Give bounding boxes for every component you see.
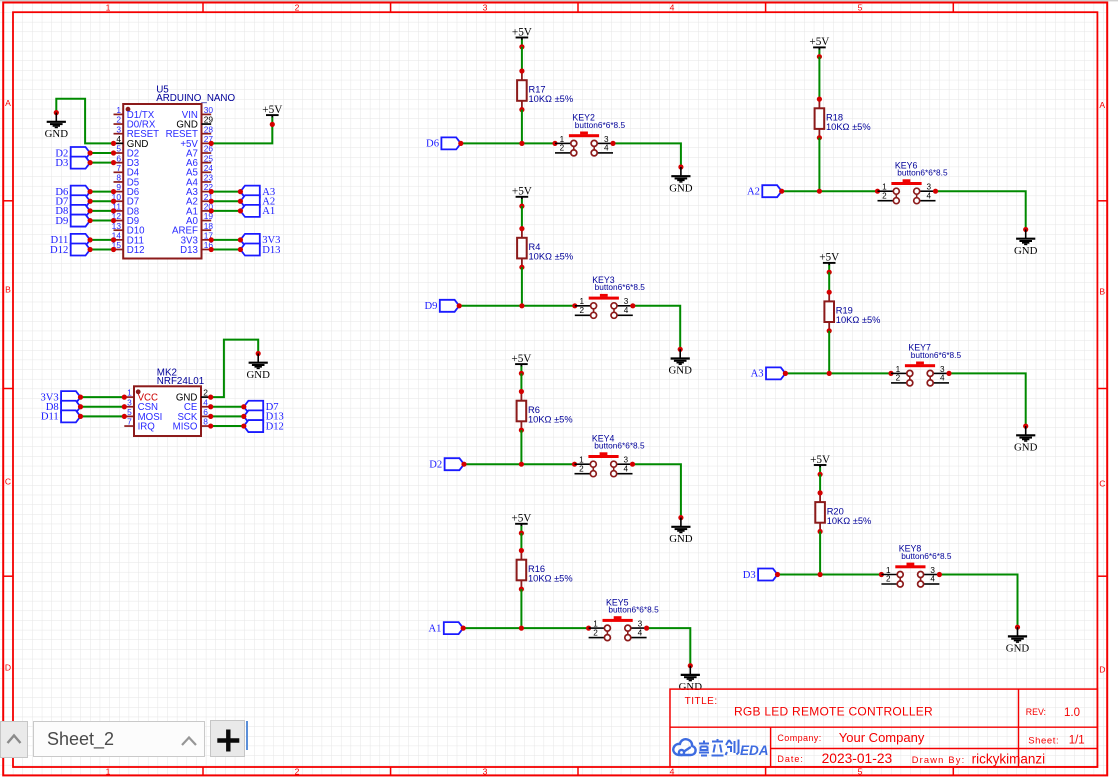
resistor R17: [517, 68, 573, 112]
svg-text:D6: D6: [426, 139, 439, 150]
U5 pin 13 D10: [112, 221, 146, 237]
wire R4 to node D9: [521, 267, 523, 306]
ground KEY2: [669, 164, 693, 194]
svg-text:1: 1: [579, 456, 584, 465]
IC U5 ARDUINO_NANO: [112, 84, 236, 258]
wire +5V to R4: [521, 206, 523, 229]
svg-text:2: 2: [593, 628, 598, 637]
ground near U5: [45, 110, 69, 140]
svg-text:GND: GND: [679, 681, 703, 693]
wire D9 to U5 pin 12: [88, 218, 117, 223]
MK2 pin 6 SCK: [177, 407, 210, 423]
svg-text:+5V: +5V: [809, 36, 829, 48]
svg-text:R6: R6: [528, 405, 540, 415]
svg-text:R19: R19: [836, 306, 853, 316]
svg-text:3: 3: [624, 456, 629, 465]
svg-text:1: 1: [106, 767, 111, 777]
svg-text:+5V: +5V: [810, 454, 830, 466]
U5 pin 16 D13: [180, 240, 213, 256]
svg-text:D2: D2: [429, 460, 442, 471]
svg-text:3: 3: [638, 620, 643, 629]
wire D12 to U5 pin 15: [88, 247, 117, 252]
wire R19 to node A3: [828, 331, 830, 374]
net label D11 (MK2 left): [41, 410, 81, 422]
wire A3 net to KEY7 pin 1: [783, 371, 894, 376]
svg-text:6: 6: [116, 153, 121, 163]
svg-text:+5V: +5V: [511, 353, 531, 365]
svg-text:R18: R18: [826, 113, 843, 123]
net label A3 (U5 right): [240, 186, 275, 198]
svg-text:1: 1: [106, 2, 111, 12]
svg-text:5: 5: [116, 144, 121, 154]
svg-text:ARDUINO_NANO: ARDUINO_NANO: [156, 93, 235, 104]
junction node D3/R20: [818, 572, 823, 577]
wire KEY3 pin 3 to ground: [630, 303, 680, 349]
svg-text:3: 3: [930, 566, 935, 575]
svg-text:GND: GND: [246, 369, 270, 381]
svg-text:C: C: [1099, 479, 1105, 489]
wire D2 net to KEY4 pin 1: [461, 462, 577, 467]
svg-text:4: 4: [116, 134, 121, 144]
svg-text:D9: D9: [55, 216, 68, 227]
power flag +5V KEY3 pull-up: [512, 186, 532, 209]
svg-text:A1: A1: [262, 206, 275, 217]
U5 pin 12 D9: [112, 211, 140, 227]
svg-text:29: 29: [204, 115, 214, 125]
net label D9 (U5 left): [55, 215, 90, 227]
svg-text:+5V: +5V: [819, 252, 839, 264]
svg-text:D: D: [1099, 665, 1105, 675]
push button KEY2 (button6*6*8.5): [555, 113, 625, 156]
junction node D2/R6: [519, 462, 524, 467]
svg-text:MISO: MISO: [173, 421, 198, 432]
net label A1 (KEY5): [428, 622, 463, 634]
svg-text:4: 4: [624, 306, 629, 315]
svg-text:2: 2: [579, 306, 584, 315]
wire R16 to node A1: [520, 589, 522, 628]
svg-text:2: 2: [295, 2, 300, 12]
svg-text:10KΩ ±5%: 10KΩ ±5%: [827, 516, 872, 526]
svg-text:+5V: +5V: [512, 186, 532, 198]
svg-text:2: 2: [882, 191, 887, 200]
power flag +5V near U5: [262, 104, 282, 127]
svg-text:B: B: [5, 285, 11, 295]
ground KEY5: [679, 663, 703, 693]
svg-text:button6*6*8.5: button6*6*8.5: [911, 350, 962, 360]
svg-text:10KΩ ±5%: 10KΩ ±5%: [528, 573, 573, 583]
svg-text:1.0: 1.0: [1064, 707, 1080, 719]
net label D2 (KEY4): [429, 458, 464, 470]
wire D8 to MK2: [78, 404, 127, 409]
svg-text:1: 1: [579, 297, 584, 306]
push button KEY8 (button6*6*8.5): [881, 544, 951, 587]
svg-text:GND: GND: [669, 182, 693, 194]
ground KEY3: [668, 347, 692, 377]
svg-text:2: 2: [116, 115, 121, 125]
svg-text:D: D: [5, 663, 11, 673]
U5 pin 7 D4: [114, 163, 140, 179]
svg-text:A2: A2: [747, 187, 760, 198]
push button KEY5 (button6*6*8.5): [589, 597, 659, 640]
svg-text:RGB LED REMOTE CONTROLLER: RGB LED REMOTE CONTROLLER: [734, 705, 933, 719]
U5 pin 2 D0/RX: [114, 115, 156, 131]
net label A3 (KEY7): [751, 367, 786, 379]
net label A1 (U5 right): [240, 205, 275, 217]
U5 pin 10 D7: [112, 192, 140, 208]
svg-text:D3: D3: [743, 570, 756, 581]
wire A3 to U5 pin 22: [209, 189, 243, 194]
wire U5 pin4 GND to ground: [56, 99, 116, 146]
U5 pin 14 D11: [112, 230, 144, 246]
net label D3 (KEY8): [743, 569, 778, 581]
svg-text:10KΩ ±5%: 10KΩ ±5%: [826, 122, 871, 132]
svg-text:3: 3: [483, 2, 488, 12]
resistor R4: [517, 226, 573, 270]
MK2 pin 2 GND: [176, 388, 211, 404]
wire +5V to R6: [520, 373, 522, 391]
junction node A1/R16: [519, 626, 524, 631]
svg-text:2: 2: [579, 464, 584, 473]
svg-text:Drawn By:: Drawn By:: [912, 755, 966, 765]
U5 pin 29 GND: [176, 115, 213, 131]
U5 pin 30 VIN: [182, 105, 214, 121]
svg-text:3: 3: [116, 124, 121, 134]
svg-text:D9: D9: [424, 301, 437, 312]
UI caret: [246, 721, 249, 750]
U5 pin 26 A7: [186, 144, 213, 160]
svg-text:D11: D11: [41, 412, 59, 423]
wire D13 to MK2: [208, 414, 246, 419]
U5 pin 18 AREF: [172, 221, 213, 237]
svg-text:Your Company: Your Company: [839, 730, 925, 745]
svg-text:GND: GND: [669, 533, 693, 545]
wire A2 to U5 pin 21: [209, 199, 243, 204]
U5 pin 15 D12: [112, 240, 145, 256]
U5 pin 9 D6: [114, 182, 140, 198]
svg-text:2: 2: [295, 767, 300, 777]
ground KEY6: [1014, 227, 1038, 257]
net label 3V3 (MK2 left): [40, 391, 80, 403]
svg-text:IRQ: IRQ: [138, 421, 156, 432]
svg-text:button6*6*8.5: button6*6*8.5: [595, 282, 646, 292]
resistor R19: [824, 290, 880, 334]
wire +5V to R18: [818, 57, 820, 99]
svg-text:button6*6*8.5: button6*6*8.5: [575, 120, 626, 130]
svg-text:Date:: Date:: [777, 754, 804, 764]
MK2 pin 5 MOSI: [124, 407, 162, 423]
ground KEY7: [1014, 424, 1038, 454]
svg-text:10KΩ ±5%: 10KΩ ±5%: [529, 94, 574, 104]
svg-text:R17: R17: [529, 84, 546, 94]
U5 pin 27 +5V: [180, 134, 213, 150]
svg-text:3: 3: [940, 365, 945, 374]
MK2 pin 1 VCC: [124, 388, 158, 404]
wire KEY2 pin 3 to ground: [610, 141, 681, 167]
svg-text:1: 1: [896, 365, 901, 374]
svg-text:D13: D13: [262, 245, 280, 256]
svg-text:GND: GND: [1006, 643, 1030, 655]
power flag +5V KEY8 pull-up: [810, 454, 830, 477]
net label D3 (U5 left): [55, 157, 90, 169]
svg-text:3: 3: [927, 183, 932, 192]
MK2 pin 4 CE: [184, 397, 211, 413]
svg-text:4: 4: [930, 575, 935, 584]
MK2 pin 7 IRQ: [124, 417, 155, 433]
U5 pin 4 GND: [114, 134, 149, 150]
svg-text:2023-01-23: 2023-01-23: [822, 751, 893, 766]
net label A2 (KEY6): [747, 185, 782, 197]
svg-text:1: 1: [560, 135, 565, 144]
svg-text:8: 8: [203, 417, 208, 427]
svg-text:3: 3: [127, 397, 132, 407]
svg-text:GND: GND: [668, 365, 692, 377]
svg-text:rickykimanzi: rickykimanzi: [972, 751, 1046, 766]
net label D11 (U5 left): [50, 234, 90, 246]
wire 3V3 to U5 pin 17: [209, 237, 243, 242]
net label D6 (U5 left): [55, 186, 90, 198]
net label 3V3 (U5 right): [240, 234, 280, 246]
svg-text:4: 4: [624, 464, 629, 473]
ground KEY8: [1006, 625, 1030, 655]
svg-text:4: 4: [203, 397, 208, 407]
wire D8 to U5 pin 11: [88, 208, 117, 213]
U5 pin 5 D2: [114, 144, 140, 160]
svg-text:4: 4: [940, 374, 945, 383]
U5 pin 8 D5: [114, 173, 140, 189]
power flag +5V KEY5 pull-up: [511, 513, 531, 536]
wire A1 net to KEY5 pin 1: [461, 626, 592, 631]
svg-text:9: 9: [116, 182, 121, 192]
svg-text:R16: R16: [528, 564, 545, 574]
svg-text:10KΩ ±5%: 10KΩ ±5%: [529, 252, 574, 262]
svg-text:button6*6*8.5: button6*6*8.5: [594, 441, 645, 451]
svg-text:A1: A1: [428, 623, 441, 634]
svg-text:18: 18: [204, 221, 214, 231]
svg-text:1: 1: [882, 183, 887, 192]
wire D3 net to KEY8 pin 1: [775, 572, 884, 577]
svg-text:23: 23: [204, 173, 214, 183]
U5 pin 1 D1/TX: [114, 105, 155, 121]
wire +5V to R19: [828, 272, 830, 292]
net label D12 (U5 left): [50, 244, 90, 256]
svg-text:7: 7: [127, 417, 132, 427]
svg-text:4: 4: [604, 144, 609, 153]
wire KEY7 pin 3 to ground: [946, 371, 1025, 426]
wire R6 to node D2: [520, 430, 522, 464]
svg-text:28: 28: [204, 124, 214, 134]
svg-text:B: B: [1099, 287, 1105, 297]
UI add sheet button: [210, 720, 245, 757]
net label D12 (MK2 right): [244, 420, 284, 432]
U5 pin 19 A0: [186, 211, 213, 227]
svg-text:2: 2: [560, 144, 565, 153]
svg-text:R4: R4: [529, 242, 541, 252]
svg-text:TITLE:: TITLE:: [685, 696, 718, 707]
svg-text:button6*6*8.5: button6*6*8.5: [608, 605, 659, 615]
wire KEY6 pin 3 to ground: [933, 189, 1026, 230]
net label D2 (U5 left): [55, 147, 90, 159]
U5 pin 23 A4: [186, 173, 213, 189]
svg-text:8: 8: [116, 173, 121, 183]
svg-text:+5V: +5V: [511, 513, 531, 525]
wire D7 to U5 pin 10: [88, 199, 117, 204]
svg-text:1: 1: [886, 566, 891, 575]
svg-text:A: A: [1099, 100, 1105, 110]
svg-text:Company:: Company:: [777, 733, 821, 743]
svg-text:2: 2: [886, 575, 891, 584]
wire D2 to U5 pin 5: [88, 150, 117, 155]
svg-text:GND: GND: [45, 128, 69, 140]
wire MK2 pin2 GND to ground: [208, 340, 258, 400]
U5 pin 24 A5: [186, 163, 213, 179]
net label A2 (U5 right): [240, 195, 275, 207]
svg-text:1: 1: [127, 388, 132, 398]
svg-text:NRF24L01: NRF24L01: [157, 376, 204, 387]
net label D13 (U5 right): [240, 244, 280, 256]
wire +5V to R20: [819, 474, 821, 493]
junction node D6/R17: [519, 141, 524, 146]
svg-text:D12: D12: [50, 245, 68, 256]
wire D13 to U5 pin 16: [209, 247, 243, 252]
U5 pin 21 A2: [186, 192, 213, 208]
svg-text:25: 25: [204, 153, 214, 163]
svg-text:7: 7: [116, 163, 121, 173]
svg-text:Sheet:: Sheet:: [1028, 736, 1059, 747]
svg-text:EDA: EDA: [740, 743, 769, 758]
svg-text:6: 6: [203, 407, 208, 417]
wire D9 net to KEY3 pin 1: [457, 303, 578, 308]
power flag +5V KEY4 pull-up: [511, 353, 531, 376]
U5 pin 20 A1: [186, 202, 213, 218]
wire KEY8 pin 3 to ground: [937, 572, 1018, 627]
wire R18 to node A2: [818, 138, 820, 192]
wire D6 to U5 pin 9: [88, 189, 117, 194]
power flag +5V KEY2 pull-up: [512, 26, 532, 49]
svg-text:4: 4: [927, 191, 932, 200]
U5 pin 22 A3: [186, 182, 213, 198]
svg-text:A3: A3: [751, 369, 764, 380]
resistor R18: [815, 97, 871, 141]
wire A2 net to KEY6 pin 1: [779, 189, 880, 194]
svg-text:R20: R20: [827, 506, 844, 516]
wire D7 to MK2: [208, 404, 246, 409]
wire R20 to node D3: [819, 532, 821, 575]
resistor R16: [517, 548, 573, 592]
svg-text:GND: GND: [1014, 245, 1038, 257]
svg-text:3: 3: [624, 297, 629, 306]
push button KEY6 (button6*6*8.5): [878, 160, 948, 203]
wire +5V to R17: [521, 47, 523, 71]
svg-text:4: 4: [670, 2, 675, 12]
MK2 pin 3 CSN: [124, 397, 158, 413]
ground near MK2: [246, 351, 270, 381]
U5 pin 28 RESET: [166, 124, 214, 140]
svg-text:4: 4: [638, 628, 643, 637]
wire D12 to MK2: [208, 423, 246, 428]
junction node A2/R18: [817, 189, 822, 194]
U5 pin 17 3V3: [181, 230, 214, 246]
UI collapse button: [0, 721, 28, 758]
svg-text:+5V: +5V: [512, 26, 532, 38]
push button KEY4 (button6*6*8.5): [575, 433, 645, 476]
IC MK2 NRF24L01: [124, 367, 210, 436]
svg-text:+5V: +5V: [262, 104, 282, 116]
net label D6 (KEY2): [426, 137, 461, 149]
svg-text:24: 24: [204, 163, 214, 173]
svg-text:REV:: REV:: [1026, 707, 1046, 717]
svg-text:1: 1: [593, 620, 598, 629]
svg-text:1/1: 1/1: [1069, 735, 1085, 747]
wire D3 to U5 pin 6: [88, 160, 117, 165]
svg-text:button6*6*8.5: button6*6*8.5: [897, 168, 948, 178]
title block: [670, 689, 1097, 767]
wire D11 to U5 pin 14: [88, 237, 117, 242]
EasyEDA logo: [673, 739, 695, 755]
svg-text:D3: D3: [55, 158, 68, 169]
svg-text:D12: D12: [127, 245, 145, 256]
svg-text:C: C: [5, 477, 11, 487]
svg-text:10KΩ ±5%: 10KΩ ±5%: [836, 315, 881, 325]
U5 pin 3 RESET: [114, 124, 160, 140]
svg-text:GND: GND: [1014, 441, 1038, 453]
resistor R20: [815, 490, 871, 534]
svg-text:3: 3: [604, 135, 609, 144]
net label D7 (MK2 right): [244, 401, 279, 413]
net label D8 (MK2 left): [46, 401, 81, 413]
resistor R6: [517, 389, 573, 433]
wire KEY4 pin 3 to ground: [630, 462, 681, 518]
U5 pin 6 D3: [114, 153, 140, 169]
net label D9 (KEY3): [424, 300, 459, 312]
junction node D9/R4: [519, 303, 524, 308]
ground KEY4: [669, 515, 693, 545]
svg-text:1: 1: [116, 105, 121, 115]
UI sheet tab Sheet_2: [33, 721, 206, 757]
svg-text:30: 30: [204, 105, 214, 115]
wire R17 to node D6: [521, 110, 523, 144]
svg-text:5: 5: [858, 2, 863, 12]
junction node A3/R19: [827, 371, 832, 376]
svg-text:5: 5: [858, 767, 863, 777]
svg-text:2: 2: [896, 374, 901, 383]
svg-text:10KΩ ±5%: 10KΩ ±5%: [528, 414, 573, 424]
U5 pin 25 A6: [186, 153, 213, 169]
U5 pin 11 D8: [112, 202, 139, 218]
MK2 pin 8 MISO: [173, 417, 211, 433]
svg-text:button6*6*8.5: button6*6*8.5: [901, 551, 952, 561]
wire KEY5 pin 3 to ground: [644, 626, 690, 666]
svg-text:D13: D13: [180, 245, 198, 256]
power flag +5V KEY7 pull-up: [819, 252, 839, 275]
push button KEY3 (button6*6*8.5): [575, 275, 645, 318]
push button KEY7 (button6*6*8.5): [891, 343, 961, 386]
power flag +5V KEY6 pull-up: [809, 36, 829, 59]
net label D8 (U5 left): [55, 205, 90, 217]
net label D7 (U5 left): [55, 195, 90, 207]
svg-text:D12: D12: [266, 421, 284, 432]
svg-text:3: 3: [483, 767, 488, 777]
wire +5V to R16: [520, 533, 522, 550]
svg-text:A: A: [5, 98, 11, 108]
wire 3V3 to MK2: [78, 395, 127, 400]
wire A1 to U5 pin 20: [209, 208, 243, 213]
wire D11 to MK2: [78, 414, 127, 419]
net label D13 (MK2 right): [244, 410, 284, 422]
wire D6 net to KEY2 pin 1: [458, 141, 557, 146]
wire U5 pin27 +5V to power flag: [209, 124, 273, 146]
svg-text:5: 5: [127, 407, 132, 417]
svg-text:4: 4: [670, 767, 675, 777]
